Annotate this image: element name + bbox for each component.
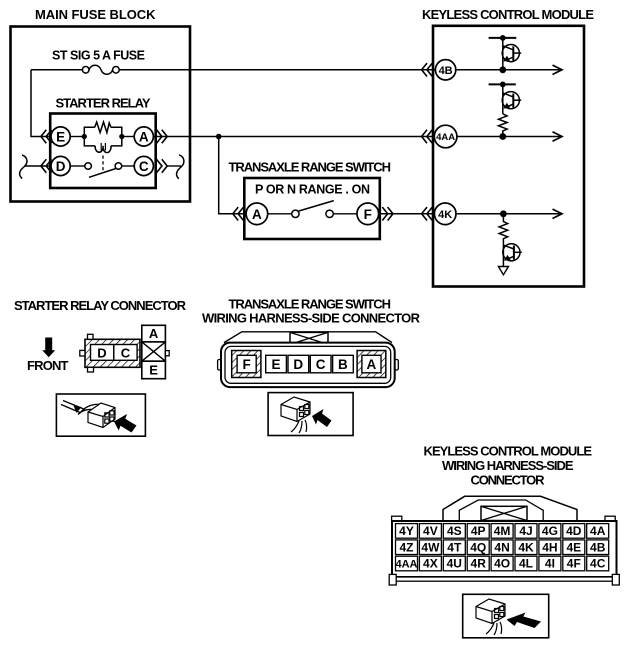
transistor Q1: [502, 38, 521, 70]
svg-text:4D: 4D: [566, 524, 582, 538]
svg-text:C: C: [139, 159, 149, 174]
keyless connector body: [392, 521, 617, 577]
relay pin A: [134, 127, 153, 146]
chevron out of relay pin A: [157, 130, 168, 143]
pin cell 4H: [539, 540, 561, 555]
wire junction down to range switch pin A: [219, 137, 246, 214]
node on 4AA wire: [499, 133, 506, 140]
pin cell 4A: [587, 524, 609, 539]
range switch pin A: [246, 203, 268, 225]
cavity D: [288, 355, 309, 373]
wire fuse to module pin 4B: [119, 69, 435, 71]
connector tab top: [88, 334, 94, 339]
wire into relay pin D: [24, 165, 51, 167]
chevron out of relay pin C: [157, 159, 168, 172]
svg-text:4O: 4O: [494, 557, 510, 571]
pin cell 4G: [539, 524, 561, 539]
svg-text:4AA: 4AA: [395, 559, 417, 571]
svg-text:4V: 4V: [423, 524, 438, 538]
svg-text:KEYLESS CONTROL MODULE: KEYLESS CONTROL MODULE: [422, 7, 594, 22]
svg-text:4M: 4M: [494, 524, 511, 538]
chevron into relay pin E: [41, 130, 52, 143]
resistor R2 (Q2 emitter): [499, 114, 508, 137]
svg-text:FRONT: FRONT: [27, 358, 69, 373]
chevron into module pin 4AA: [422, 130, 433, 143]
SECTION: schematic top: [11, 7, 595, 287]
photo: pointing arrow: [312, 409, 332, 427]
range switch contact left: [292, 210, 299, 217]
SECTION: connectors bottom: [14, 297, 619, 638]
pin cell 4C: [587, 556, 609, 571]
photo: wire clip arrow: [74, 406, 82, 414]
node junction on 4AA wire: [216, 134, 222, 140]
node on 4K wire: [500, 210, 507, 217]
ground symbol: [498, 267, 508, 275]
continuation squiggle left of pin D: [20, 155, 27, 179]
pin cell 4E: [563, 540, 585, 555]
svg-text:4T: 4T: [447, 540, 462, 554]
photo: connector 3d body: [476, 599, 505, 624]
coil branch wires: [84, 137, 95, 146]
relay switch contact left: [85, 163, 92, 170]
pin cell 4F: [563, 556, 585, 571]
relay switch contact right: [115, 163, 122, 170]
photo: harness wires: [61, 401, 104, 415]
wire D to switch contact: [70, 165, 85, 167]
cavity A (hatched): [357, 351, 386, 378]
transaxle connector tab right: [394, 360, 398, 371]
front direction arrow: [42, 338, 55, 358]
transaxle range switch box: [244, 178, 379, 239]
photo: pointing arrow: [114, 414, 137, 433]
svg-text:F: F: [364, 207, 372, 222]
pin cell 4Q: [467, 540, 489, 555]
svg-text:C: C: [316, 357, 326, 372]
svg-text:4I: 4I: [545, 557, 555, 571]
keyless connector bottom flange: [392, 577, 617, 581]
chevron into module pin 4K: [422, 207, 433, 220]
transistor Q3: [503, 244, 522, 267]
svg-text:4A: 4A: [590, 524, 606, 538]
svg-text:4P: 4P: [471, 524, 486, 538]
transistor Q1 supply bar: [489, 37, 517, 39]
starter relay connector photo frame: [56, 394, 145, 436]
chevron into relay pin D: [41, 159, 52, 172]
svg-text:4N: 4N: [494, 540, 509, 554]
svg-text:MAIN FUSE BLOCK: MAIN FUSE BLOCK: [35, 7, 156, 22]
starter relay box: [50, 114, 156, 189]
svg-text:4G: 4G: [542, 524, 558, 538]
pin cell 4J: [515, 524, 537, 539]
cavity A: [142, 325, 166, 342]
wire switch to relay pin C: [122, 165, 135, 167]
photo: pointing arrow: [507, 613, 542, 629]
wire E to coil node: [70, 136, 84, 138]
pin cell 4P: [467, 524, 489, 539]
module pin 4AA: [434, 125, 457, 148]
wire 4AA internal with arrow: [457, 136, 562, 138]
wire out of pin C: [167, 165, 181, 167]
svg-text:A: A: [367, 357, 377, 372]
keyless connector photo frame: [463, 594, 549, 638]
transistor Q2: [502, 84, 521, 113]
svg-text:4E: 4E: [566, 540, 581, 554]
pin cell 4AA: [396, 556, 418, 571]
transaxle connector outer shell: [221, 343, 395, 388]
pin cell 4S: [443, 524, 465, 539]
wire fuse feed: [31, 69, 83, 71]
transaxle connector photo frame: [268, 393, 353, 436]
relay pin E: [51, 127, 70, 146]
svg-text:WIRING HARNESS-SIDE: WIRING HARNESS-SIDE: [442, 458, 574, 473]
wire F to module pin 4K: [379, 213, 435, 215]
svg-text:4U: 4U: [447, 557, 462, 571]
node junction right: [119, 134, 124, 139]
svg-text:4X: 4X: [423, 557, 438, 571]
svg-text:4Q: 4Q: [470, 540, 486, 554]
wire contact to F: [333, 213, 357, 215]
transaxle connector keyway box: [290, 332, 328, 344]
svg-text:A: A: [149, 326, 159, 341]
fuse F1 ST SIG 5A: [82, 67, 89, 74]
svg-text:4K: 4K: [438, 209, 452, 221]
blocked cavity X: [142, 342, 166, 361]
pin cell 4M: [491, 524, 513, 539]
chevron out of switch pin F: [382, 207, 393, 220]
svg-text:4W: 4W: [421, 540, 440, 554]
svg-text:P OR N RANGE . ON: P OR N RANGE . ON: [255, 183, 370, 197]
pin cell 4N: [491, 540, 513, 555]
flange foot left: [389, 574, 396, 585]
chevron into module pin 4B: [422, 63, 433, 76]
pin cell 4Y: [396, 524, 418, 539]
module pin 4B: [435, 60, 455, 80]
wire 4K internal with arrow: [456, 213, 562, 215]
starter relay connector body (hatched): [85, 339, 140, 367]
pin cell 4V: [419, 524, 441, 539]
svg-text:A: A: [252, 207, 262, 222]
continuation squiggle right of pin C: [177, 155, 184, 179]
keyless connector keyway box: [481, 506, 527, 520]
svg-text:C: C: [121, 345, 131, 360]
svg-text:STARTER RELAY CONNECTOR: STARTER RELAY CONNECTOR: [14, 298, 187, 313]
svg-text:TRANSAXLE RANGE SWITCH: TRANSAXLE RANGE SWITCH: [229, 297, 392, 312]
svg-text:4Z: 4Z: [399, 540, 413, 554]
svg-text:CONNECTOR: CONNECTOR: [471, 472, 546, 487]
relay pin D: [51, 156, 70, 175]
cavity B: [333, 355, 354, 373]
range switch pin F: [357, 203, 379, 225]
pin cell 4W: [419, 540, 441, 555]
pin cell 4O: [491, 556, 513, 571]
cavity C: [310, 355, 331, 373]
transaxle connector tab left: [218, 360, 222, 371]
pin cell 4R: [467, 556, 489, 571]
node junction left: [82, 134, 87, 139]
svg-text:4R: 4R: [471, 557, 487, 571]
svg-text:A: A: [139, 129, 149, 144]
keyless connector tab top-right: [605, 516, 615, 521]
svg-text:D: D: [97, 345, 106, 360]
connector tab bottom: [88, 367, 94, 372]
transistor Q2 supply bar: [489, 83, 516, 85]
relay actuator dashed link: [102, 156, 104, 172]
connector tab right: [165, 351, 169, 356]
range switch contact right: [326, 210, 333, 217]
photo: connector 3d body: [88, 403, 115, 428]
svg-text:KEYLESS CONTROL MODULE: KEYLESS CONTROL MODULE: [424, 444, 593, 459]
svg-text:4B: 4B: [439, 65, 453, 77]
svg-text:E: E: [56, 129, 65, 144]
pin cell 4L: [515, 556, 537, 571]
svg-text:ST SIG 5 A FUSE: ST SIG 5 A FUSE: [52, 49, 145, 63]
pin cell 4B: [587, 540, 609, 555]
svg-text:TRANSAXLE RANGE SWITCH: TRANSAXLE RANGE SWITCH: [229, 160, 392, 175]
svg-text:F: F: [242, 357, 250, 372]
keyless connector tab top-left: [392, 516, 402, 521]
cavity D: [91, 345, 114, 361]
node on 4B wire: [499, 66, 506, 73]
pin cell 4K: [515, 540, 537, 555]
wire relay A to module pin 4AA: [153, 136, 435, 138]
svg-text:D: D: [293, 357, 303, 372]
module pin 4K: [434, 203, 456, 225]
svg-text:4J: 4J: [519, 524, 532, 538]
svg-text:4Y: 4Y: [399, 524, 414, 538]
resistor R (relay) zigzag: [95, 122, 111, 133]
svg-text:STARTER RELAY: STARTER RELAY: [56, 96, 151, 111]
photo: harness wires: [486, 622, 502, 635]
pin cell 4U: [443, 556, 465, 571]
svg-text:B: B: [338, 357, 348, 372]
svg-text:WIRING HARNESS-SIDE CONNECTOR: WIRING HARNESS-SIDE CONNECTOR: [202, 310, 421, 325]
relay pin C: [134, 156, 153, 175]
wire coil node to relay pin A: [122, 136, 134, 138]
svg-text:4S: 4S: [447, 524, 462, 538]
pin cell 4X: [419, 556, 441, 571]
svg-text:4B: 4B: [590, 540, 606, 554]
resistor R3 (4K pulldown): [499, 214, 508, 244]
photo: harness wires: [291, 420, 307, 433]
svg-text:E: E: [271, 357, 280, 372]
keyless connector hood inner: [459, 500, 543, 521]
wire from fuse corner down to relay pin E: [31, 70, 51, 137]
wire 4B internal with arrow: [456, 69, 562, 71]
wire A to contact: [268, 213, 292, 215]
keyless control module box: [433, 26, 584, 287]
connector tab left: [80, 350, 85, 356]
cavity E: [142, 361, 166, 379]
svg-text:4L: 4L: [519, 557, 533, 571]
relay switch blade: [89, 169, 116, 178]
svg-text:4C: 4C: [590, 557, 606, 571]
cavity E: [266, 355, 287, 373]
pin cell 4T: [443, 540, 465, 555]
relay coil L: [95, 146, 111, 153]
svg-text:4K: 4K: [518, 540, 534, 554]
range switch blade: [299, 201, 334, 211]
pin cell 4I: [539, 556, 561, 571]
svg-text:4AA: 4AA: [436, 132, 455, 143]
transaxle connector inner shell: [225, 346, 391, 383]
svg-text:D: D: [56, 159, 66, 174]
keyless connector hood outer: [443, 496, 577, 521]
flange foot right: [612, 574, 619, 585]
resistor branch (relay): [84, 127, 94, 136]
svg-text:4F: 4F: [567, 557, 581, 571]
cavity C: [114, 345, 137, 361]
main fuse block box: [11, 27, 191, 202]
cavity F (hatched): [232, 351, 261, 378]
chevron into switch pin A: [233, 207, 244, 220]
svg-text:4H: 4H: [542, 540, 557, 554]
pin cell 4D: [563, 524, 585, 539]
svg-text:E: E: [149, 363, 158, 378]
photo: connector 3d body: [281, 397, 310, 422]
transaxle connector hood trapezoid: [224, 332, 392, 343]
pin cell 4Z: [396, 540, 418, 555]
